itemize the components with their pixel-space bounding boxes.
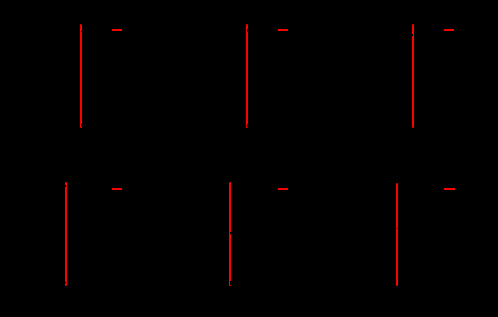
black wire crossing W3 (overlap notch) xyxy=(412,34,413,36)
label: minus polarity mark, bottom row, column 1 xyxy=(112,188,122,190)
wire W5: red vertical branch, bottom row, column 2 xyxy=(229,182,231,285)
black wire crossing W2 (overlap notch, upper) xyxy=(247,29,248,31)
black wire crossing W5 (overlap notch, lower) xyxy=(230,281,231,284)
label: minus polarity mark, bottom row, column 3 xyxy=(444,188,455,190)
wire W4: red vertical branch, bottom row, column 1 xyxy=(65,182,67,286)
black wire crossing W1 (overlap notch, upper) xyxy=(81,31,82,32)
label: minus polarity mark, top row, column 3 xyxy=(444,29,455,31)
black wire crossing W5 (overlap notch, mid) xyxy=(230,232,231,234)
label: minus polarity mark, bottom row, column 2 xyxy=(278,188,288,190)
label: minus polarity mark, top row, column 2 xyxy=(278,29,288,31)
wire W3: red vertical branch, top row, column 3 xyxy=(412,24,414,128)
wire W1: red vertical branch, top row, column 1 xyxy=(80,24,82,128)
wire W2: red vertical branch, top row, column 2 xyxy=(246,24,248,128)
label: minus polarity mark, top row, column 1 xyxy=(112,29,122,31)
black wire crossing W1 (overlap notch, lower) xyxy=(81,124,82,127)
black wire crossing W4 (overlap notch, upper) xyxy=(65,185,66,187)
wire W6: red vertical branch, bottom row, column 3 xyxy=(396,183,398,286)
black wire crossing W2 (overlap notch, lower) xyxy=(247,124,248,127)
black wire crossing W4 (overlap notch, lower) xyxy=(65,282,66,283)
black wire crossing W6 (overlap notch, faint) xyxy=(397,228,398,229)
